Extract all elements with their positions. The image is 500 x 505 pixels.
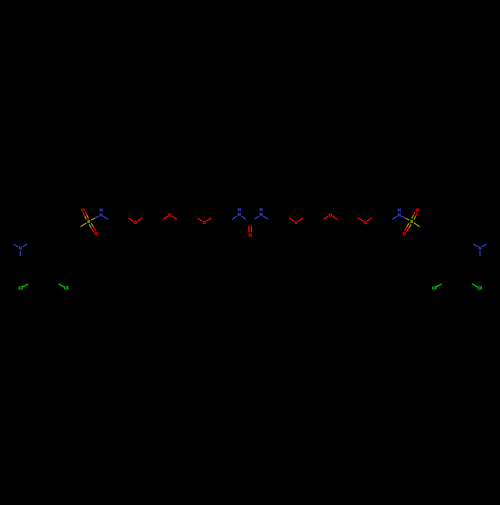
svg-text:O: O xyxy=(294,220,298,225)
svg-text:Cl: Cl xyxy=(64,286,69,291)
svg-text:H: H xyxy=(398,207,401,212)
svg-text:N: N xyxy=(99,212,102,217)
svg-text:O: O xyxy=(416,208,420,213)
svg-text:O: O xyxy=(133,220,137,225)
svg-text:N: N xyxy=(478,246,481,251)
svg-text:O: O xyxy=(202,220,206,225)
svg-text:O: O xyxy=(248,232,252,237)
svg-text:N: N xyxy=(259,212,262,217)
svg-text:Cl: Cl xyxy=(432,286,437,291)
svg-text:H: H xyxy=(259,207,262,212)
svg-text:S: S xyxy=(87,219,90,224)
svg-text:H: H xyxy=(238,207,241,212)
svg-text:N: N xyxy=(19,246,22,251)
svg-text:O: O xyxy=(329,212,333,217)
svg-text:N: N xyxy=(238,212,241,217)
svg-text:H: H xyxy=(99,207,102,212)
svg-text:O: O xyxy=(403,231,407,236)
svg-text:O: O xyxy=(168,212,172,217)
svg-text:O: O xyxy=(94,231,98,236)
svg-text:Cl: Cl xyxy=(477,286,482,291)
svg-text:S: S xyxy=(410,219,413,224)
svg-text:N: N xyxy=(398,212,401,217)
svg-text:O: O xyxy=(363,220,367,225)
svg-text:Cl: Cl xyxy=(18,286,23,291)
svg-text:O: O xyxy=(81,208,85,213)
